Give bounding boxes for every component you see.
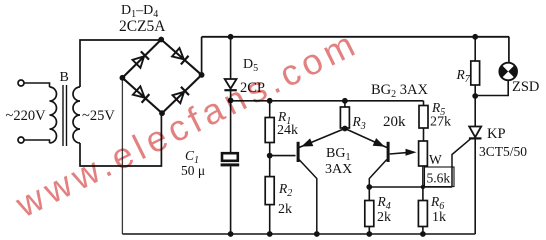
svg-text:24k: 24k: [277, 123, 298, 138]
node bridge right vertex: [199, 72, 205, 78]
svg-text:W: W: [429, 152, 442, 167]
label box 5.6k: [425, 167, 455, 187]
node bridge top vertex: [158, 37, 164, 43]
wire base BG1: [270, 155, 296, 157]
svg-text:ZSD: ZSD: [512, 79, 539, 95]
svg-text:2k: 2k: [377, 210, 391, 225]
svg-text:KP: KP: [487, 126, 506, 142]
resistor R1 24k: [265, 101, 274, 156]
transformer B secondary winding: [73, 87, 80, 143]
wire D5 branch from top rail: [230, 37, 232, 79]
potentiometer W 5.6k: [419, 141, 428, 201]
node BG1 collector bottom rail: [314, 231, 320, 237]
svg-text:50 μ: 50 μ: [181, 163, 205, 178]
node R1/R2/base: [267, 153, 273, 159]
svg-text:2k: 2k: [278, 202, 292, 217]
svg-text:27k: 27k: [430, 115, 451, 130]
node R4 bottom rail: [366, 231, 372, 237]
transistor BG2 3AX: [345, 129, 417, 188]
svg-text:3CT5/50: 3CT5/50: [479, 144, 527, 159]
transistor BG1 3AX: [297, 129, 345, 235]
resistor R3: [340, 101, 349, 128]
diode D1 top-left edge: [132, 51, 149, 68]
node top rail / D5: [228, 34, 234, 40]
svg-text:BG2 3AX: BG2 3AX: [371, 82, 429, 100]
wire collector node line: [369, 186, 452, 188]
wire top rail corner down to lamp: [508, 37, 510, 63]
transformer B primary winding: [50, 87, 57, 143]
wire bridge left vertex down to bottom rail: [121, 78, 123, 234]
node C1 bottom rail: [228, 231, 234, 237]
wire secondary bottom to bridge bottom vertex: [80, 113, 161, 166]
node bridge left vertex: [120, 75, 126, 81]
resistor R2 2k: [265, 156, 274, 234]
bridge rectifier D1-D4 diamond edges: [122, 40, 201, 114]
node R3 top: [342, 98, 348, 104]
svg-text:3AX: 3AX: [325, 162, 352, 177]
svg-text:~220V: ~220V: [6, 108, 47, 124]
svg-text:1k: 1k: [432, 210, 446, 225]
node bridge bottom vertex: [159, 110, 165, 116]
transformer core: [63, 85, 67, 146]
node R6 bottom rail: [420, 231, 426, 237]
node collector R4: [366, 184, 372, 190]
node R2 bottom rail: [267, 231, 273, 237]
svg-text:B: B: [60, 70, 69, 85]
wire bridge right vertex up to top rail: [201, 37, 203, 75]
diode D4 bottom-right edge: [172, 87, 189, 104]
node D5 cathode: [228, 98, 234, 104]
svg-text:5.6k: 5.6k: [427, 171, 451, 186]
wire terminal top to primary: [24, 83, 50, 87]
svg-text:2CZ5A: 2CZ5A: [119, 18, 166, 35]
diode D2 top-right edge: [172, 48, 189, 65]
resistor R7: [471, 37, 480, 96]
diode D5 2CP: [224, 79, 236, 100]
wire secondary top to bridge top vertex: [80, 40, 161, 87]
node top rail R7: [472, 34, 478, 40]
node R7 bottom: [472, 93, 478, 99]
svg-text:20k: 20k: [383, 114, 406, 130]
resistor R6 1k: [418, 201, 427, 235]
wire terminal bottom to primary: [24, 140, 50, 143]
resistor R5 27k: [419, 101, 428, 141]
node emitters R3 bottom: [342, 126, 348, 132]
lamp ZSD: [475, 63, 517, 96]
node W R6 junction: [421, 185, 425, 189]
thyristor KP 3CT5/50: [469, 96, 482, 234]
AC input terminal bottom: [18, 137, 24, 143]
wire bus after D5: [231, 100, 424, 102]
node R1 top: [267, 98, 273, 104]
resistor R4 2k: [365, 187, 374, 234]
top rail: [202, 36, 510, 38]
wire D5 node down to C1: [230, 100, 232, 152]
capacitor C1 50u: [221, 153, 240, 234]
svg-text:~25V: ~25V: [82, 108, 115, 124]
bottom rail: [122, 233, 475, 235]
AC input terminal top: [18, 80, 24, 86]
diode D3 bottom-left edge: [133, 86, 150, 103]
wire gate riser: [452, 139, 471, 187]
